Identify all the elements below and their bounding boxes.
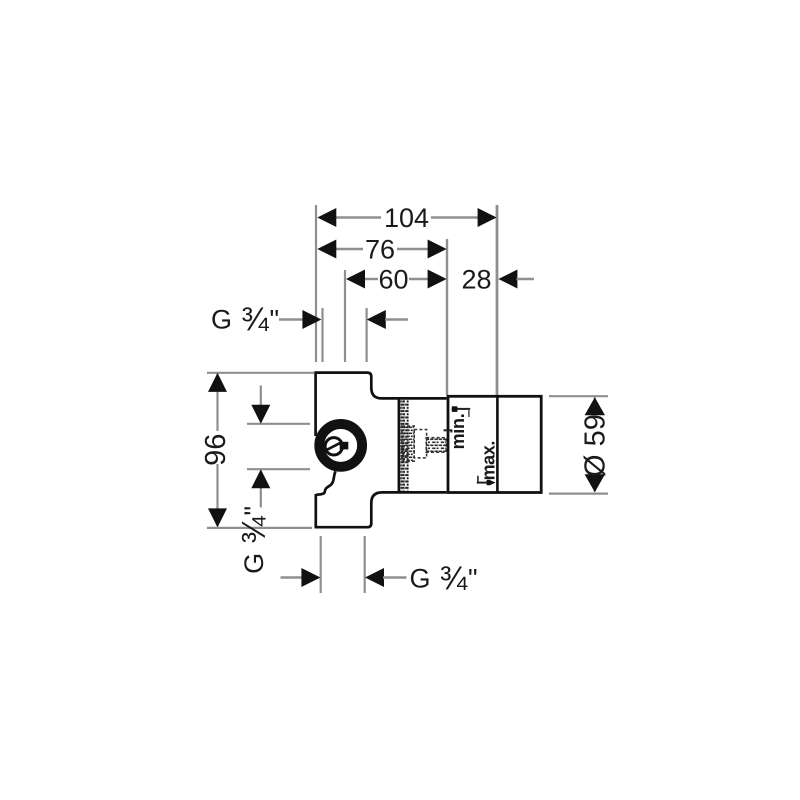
svg-text:104: 104	[384, 203, 429, 233]
hidden spindle: step B	[414, 430, 426, 458]
svg-text:G ¾": G ¾"	[235, 505, 272, 574]
valve body: flange upper outline	[316, 373, 447, 436]
extension line: dia59 bottom	[549, 493, 608, 495]
svg-text:G ¾": G ¾"	[211, 301, 280, 338]
extension line: 96 bottom	[207, 527, 312, 529]
svg-text:28: 28	[461, 265, 491, 295]
extension line: side port top	[247, 423, 310, 425]
extension line: bottom port right	[364, 536, 366, 593]
extension line: top port left edge	[321, 308, 323, 362]
bore hidden line tick	[444, 429, 453, 431]
hidden spindle: shaft C	[426, 438, 446, 453]
cartridge box	[448, 396, 541, 492]
internal line at 497	[496, 396, 499, 492]
dimension bottom port G 3/4	[281, 576, 303, 578]
svg-text:Ø 59: Ø 59	[579, 414, 611, 477]
thread hatch band	[400, 400, 408, 491]
extension line: 96 top	[207, 372, 314, 374]
svg-text:G ¾": G ¾"	[410, 560, 479, 597]
svg-text:76: 76	[365, 235, 395, 265]
knob nub	[340, 442, 349, 450]
valve body: flange lower outline	[316, 492, 447, 527]
dimension 104	[335, 216, 381, 218]
hidden spindle: step A	[402, 426, 414, 461]
extension line: top port right edge	[366, 308, 368, 362]
inner knob circle	[325, 438, 342, 455]
extension line: body left edge (104/76 left)	[315, 205, 317, 362]
extension line: bottom port left	[320, 536, 322, 593]
handle ring	[319, 424, 362, 467]
dimension dia 59	[594, 398, 596, 492]
valve body: break squiggle	[316, 471, 335, 494]
max leader arrow	[477, 476, 479, 483]
extension line: 104 right / 28 left	[496, 205, 499, 395]
svg-text:max.: max.	[479, 441, 499, 480]
svg-text:60: 60	[378, 265, 408, 295]
svg-text:96: 96	[200, 434, 232, 466]
thread flange line	[398, 398, 401, 492]
dimension side port G 3/4	[260, 386, 262, 407]
extension line: side port bottom	[247, 468, 310, 470]
svg-text:min.: min.	[448, 414, 468, 450]
extension line: top port centerline (60 left)	[344, 270, 346, 362]
extension line: dia59 top	[549, 395, 608, 397]
knob diagonal	[326, 443, 341, 451]
dimension 96	[216, 374, 218, 431]
dimension 60	[364, 278, 378, 280]
dimension 76	[335, 248, 363, 250]
extension line: internal rib (76/60 right)	[446, 239, 448, 395]
min leader arrow	[456, 408, 470, 410]
